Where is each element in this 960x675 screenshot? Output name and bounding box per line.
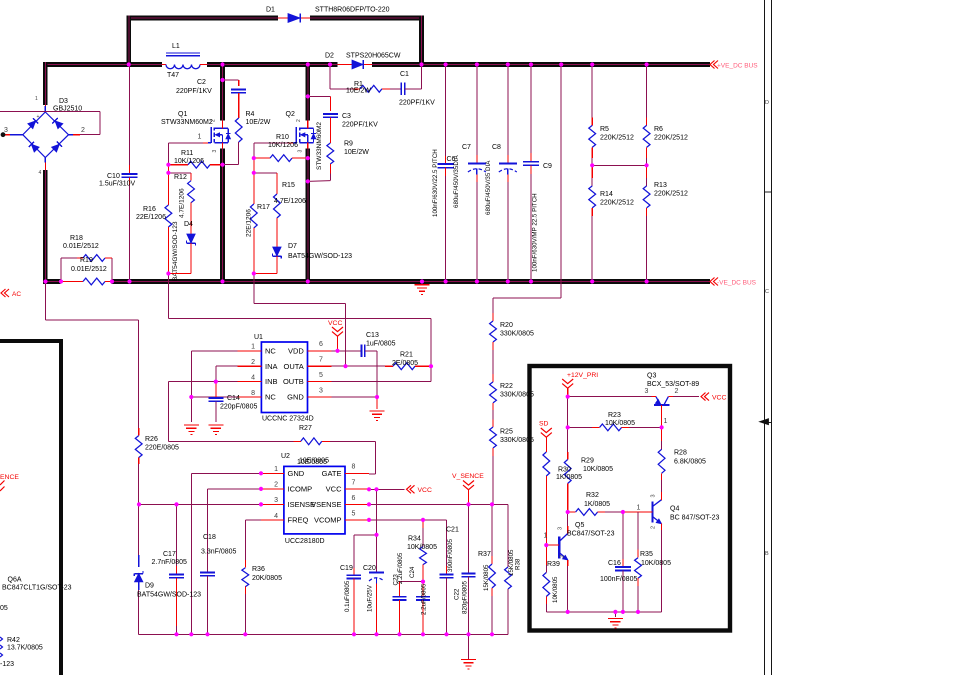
- svg-text:GATE: GATE: [322, 469, 342, 478]
- wire C10 feed: [129, 65, 131, 175]
- ground U2 rail: [461, 634, 476, 669]
- svg-text:R16: R16: [143, 206, 156, 213]
- junction (615.4,611.9): [613, 610, 617, 614]
- wire R5-R6 mid rail: [592, 164, 646, 166]
- junction (646.6,281.5): [645, 279, 649, 283]
- resistor R21: [332, 352, 432, 370]
- resistor R28: [658, 427, 706, 500]
- resistor R35: [635, 512, 671, 612]
- wire U2 ICOMP: [208, 489, 261, 573]
- svg-text:SD: SD: [539, 421, 549, 428]
- svg-text:C1: C1: [400, 71, 409, 78]
- junction (307.8,181.4): [306, 179, 310, 183]
- svg-text:10uF/25V: 10uF/25V: [367, 584, 374, 612]
- svg-text:OUTB: OUTB: [283, 377, 304, 386]
- junction (139,504.4): [137, 502, 141, 506]
- wire D3 negative output bus: [43, 170, 48, 282]
- svg-text:1: 1: [198, 134, 202, 141]
- svg-text:L1: L1: [172, 43, 180, 50]
- net -VE_DC BUS flag: [710, 278, 757, 287]
- svg-text:7: 7: [352, 479, 356, 486]
- junction (476.9,64.5): [475, 62, 479, 66]
- capacitor C8: [485, 65, 517, 282]
- net +VE_DC BUS flag: [710, 61, 758, 70]
- svg-text:R39: R39: [547, 561, 560, 568]
- diode D1: [266, 7, 390, 23]
- wire Q5 emitter to rail: [567, 566, 569, 612]
- junction (377,397): [375, 395, 379, 399]
- svg-text:3: 3: [651, 494, 657, 497]
- svg-text:C16: C16: [608, 560, 621, 567]
- svg-text:6: 6: [352, 495, 356, 502]
- wire R15 tap: [254, 158, 277, 194]
- svg-text:OUTA: OUTA: [284, 362, 304, 371]
- svg-text:BAT54GW/SOD-123: BAT54GW/SOD-123: [137, 592, 201, 599]
- svg-text:GND: GND: [287, 393, 304, 402]
- svg-text:R5: R5: [600, 126, 609, 133]
- resistor R4: [235, 111, 270, 165]
- junction (345.5,366.2): [343, 364, 347, 368]
- svg-text:10E/2W: 10E/2W: [346, 88, 371, 95]
- wire INA to INB: [216, 366, 238, 381]
- svg-text:2: 2: [651, 526, 657, 529]
- junction (423,581.6): [421, 580, 425, 584]
- svg-text:0.01E/2512: 0.01E/2512: [63, 243, 99, 250]
- svg-text:R23: R23: [608, 412, 621, 419]
- wire R1 branch: [330, 65, 360, 89]
- junction (399.5,634.3): [397, 632, 401, 636]
- svg-text:ENCE: ENCE: [0, 474, 19, 481]
- wire Q2 source bus: [305, 149, 310, 282]
- resistor R15: [274, 182, 307, 247]
- resistor R19: [61, 257, 112, 285]
- svg-text:ICOMP: ICOMP: [288, 484, 313, 493]
- junction (176.5,504.4): [174, 502, 178, 506]
- net AC flag: [1, 289, 21, 298]
- junction (253.8,158.1): [252, 156, 256, 160]
- wire U2 GATE to R27: [369, 473, 376, 475]
- svg-text:0.1uF/0805: 0.1uF/0805: [344, 580, 351, 612]
- wire U2 VCC: [369, 488, 405, 490]
- capacitor C9: [523, 65, 552, 282]
- net V_SENCE flag left: [0, 474, 19, 491]
- svg-text:6.8K/0805: 6.8K/0805: [674, 459, 706, 466]
- junction (507.8,281.5): [506, 279, 510, 283]
- svg-text:Q6A: Q6A: [8, 577, 22, 584]
- svg-text:10K/0805: 10K/0805: [583, 466, 613, 473]
- junction (222.5,281.5): [220, 279, 224, 283]
- resistor R16: [136, 173, 172, 274]
- svg-text:Q3: Q3: [647, 373, 656, 380]
- op-amp U1 gate driver: [238, 334, 332, 423]
- svg-text:22E/1206: 22E/1206: [136, 214, 166, 221]
- ground U1 NC: [184, 425, 199, 435]
- svg-text:R36: R36: [252, 566, 265, 573]
- transistor Q1: [161, 111, 231, 153]
- junction (168.4,164.7): [166, 163, 170, 167]
- junction (369,504.4): [367, 502, 371, 506]
- junction (337.5,350.8): [335, 349, 339, 353]
- capacitor C13: [332, 332, 396, 397]
- svg-text:8: 8: [352, 464, 356, 471]
- svg-text:2: 2: [675, 388, 679, 395]
- svg-text:220K/2512: 220K/2512: [654, 191, 688, 198]
- junction (421.5,64.5): [419, 62, 423, 66]
- svg-text:C2: C2: [197, 79, 206, 86]
- svg-text:R17: R17: [257, 204, 270, 211]
- junction (622.9,611.9): [621, 610, 625, 614]
- junction (128.75,64.5): [127, 62, 131, 66]
- junction (376.5,634.3): [374, 632, 378, 636]
- svg-text:FREQ: FREQ: [288, 516, 309, 525]
- svg-text:D: D: [765, 100, 769, 106]
- svg-text:100nF/630V/MP 22.5 PITCH: 100nF/630V/MP 22.5 PITCH: [532, 193, 539, 272]
- junction (638,611.9): [636, 610, 640, 614]
- junction (431,366.2): [429, 364, 433, 368]
- svg-text:D7: D7: [288, 243, 297, 250]
- junction (661.6,427.4): [660, 425, 664, 429]
- capacitor C16: [600, 512, 637, 612]
- svg-text:C: C: [765, 289, 769, 295]
- svg-text:INB: INB: [265, 377, 278, 386]
- resistor R38: [505, 549, 522, 634]
- net SD flag: [539, 421, 552, 453]
- ground C14: [208, 425, 223, 435]
- svg-text:INA: INA: [265, 362, 278, 371]
- svg-text:C24: C24: [409, 566, 416, 578]
- diode D4: [168, 221, 195, 281]
- wire OUTB to R21: [332, 366, 432, 381]
- junction (561.2,64.5): [559, 62, 563, 66]
- resistor R39: [543, 545, 560, 612]
- capacitor C20: [363, 565, 384, 634]
- svg-text:R9: R9: [344, 141, 353, 148]
- svg-text:2.2uF/0805: 2.2uF/0805: [421, 583, 428, 615]
- svg-text:820pF/0805: 820pF/0805: [462, 580, 469, 614]
- svg-text:R35: R35: [640, 551, 653, 558]
- svg-text:4: 4: [39, 170, 42, 176]
- svg-text:BCX_53/SOT-89: BCX_53/SOT-89: [647, 381, 699, 388]
- resistor R26: [135, 436, 179, 505]
- svg-text:VCC: VCC: [328, 320, 342, 327]
- resistor R25: [490, 427, 534, 504]
- capacitor C10: [99, 173, 138, 282]
- junction (468.5,634.3): [466, 632, 470, 636]
- svg-text:UCC28180D: UCC28180D: [285, 538, 325, 545]
- svg-text:1: 1: [35, 96, 38, 102]
- svg-text:STW33NM60M2: STW33NM60M2: [316, 122, 323, 170]
- junction (261,504.4): [259, 502, 263, 506]
- svg-text:C10: C10: [107, 173, 120, 180]
- svg-text:C9: C9: [543, 163, 552, 170]
- capacitor C19: [340, 565, 361, 634]
- svg-text:R27: R27: [299, 425, 312, 432]
- svg-text:C18: C18: [203, 534, 216, 541]
- svg-text:VCOMP: VCOMP: [314, 516, 342, 525]
- junction (253.8,273.5): [252, 271, 256, 275]
- resistor R10: [254, 134, 308, 162]
- transistor Q3: [645, 373, 700, 426]
- resistor R5: [589, 65, 634, 166]
- svg-text:V_SENCE: V_SENCE: [452, 473, 484, 480]
- svg-text:1: 1: [637, 505, 641, 512]
- svg-text:AC: AC: [12, 291, 21, 298]
- svg-text:R34: R34: [408, 536, 421, 543]
- svg-text:R25: R25: [500, 429, 513, 436]
- junction (61,281.5): [59, 279, 63, 283]
- junction (592.2,281.5): [590, 279, 594, 283]
- svg-text:BC847CLT1G/SOT-23: BC847CLT1G/SOT-23: [2, 585, 72, 592]
- capacitor C2: [176, 79, 246, 118]
- svg-text:R12: R12: [174, 174, 187, 181]
- junction (307.8,281.5): [306, 279, 310, 283]
- svg-text:10K/0805: 10K/0805: [407, 544, 437, 551]
- svg-text:STTH8R06DFP/TO-220: STTH8R06DFP/TO-220: [315, 7, 390, 14]
- wire U1 GND: [332, 397, 378, 409]
- svg-text:100nF/630V/22.5 PITCH: 100nF/630V/22.5 PITCH: [432, 149, 439, 217]
- junction (245.3,634.3): [243, 632, 247, 636]
- capacitor C24: [409, 566, 430, 634]
- svg-text:VCC: VCC: [418, 487, 432, 494]
- svg-text:05: 05: [0, 605, 8, 612]
- svg-text:+12V_PRI: +12V_PRI: [567, 372, 598, 379]
- svg-text:1: 1: [544, 533, 548, 540]
- junction (129.5,281.5): [127, 279, 131, 283]
- svg-text:15K/0805: 15K/0805: [508, 549, 515, 576]
- resistor R27: [297, 425, 376, 474]
- svg-text:-VE_DC BUS: -VE_DC BUS: [717, 280, 757, 287]
- wire U2 VSENSE: [369, 504, 508, 567]
- wire Q2 drain bus: [305, 62, 310, 120]
- wire Q5 collector: [567, 512, 569, 526]
- capacitor C17: [152, 504, 188, 634]
- svg-text:2: 2: [251, 359, 255, 366]
- wire D3 positive output bus: [43, 62, 48, 105]
- ground bias box: [608, 612, 623, 628]
- svg-text:3.3nF/0805: 3.3nF/0805: [201, 549, 237, 556]
- svg-text:BC847/SOT-23: BC847/SOT-23: [567, 531, 615, 538]
- junction (567.7,512): [566, 510, 570, 514]
- junction (507.8,64.5): [506, 62, 510, 66]
- svg-text:R14: R14: [600, 191, 613, 198]
- svg-text:2: 2: [81, 127, 85, 134]
- junction (445.6,281.5): [444, 279, 448, 283]
- svg-text:T47: T47: [167, 72, 179, 79]
- junction (646.6,64.5): [645, 62, 649, 66]
- svg-text:220E/0805: 220E/0805: [145, 445, 179, 452]
- net VCC flag at Q3: [673, 393, 726, 402]
- junction (307.8,96.4): [306, 94, 310, 98]
- junction (215.8,381.6): [214, 380, 218, 384]
- resistor R32: [568, 492, 623, 515]
- junction (546.3,545.1): [544, 543, 548, 547]
- svg-text:C20: C20: [363, 565, 376, 572]
- junction (168.4,172.8): [166, 171, 170, 175]
- svg-text:Q5: Q5: [575, 522, 584, 529]
- svg-text:-123: -123: [0, 661, 14, 668]
- svg-text:2: 2: [274, 482, 278, 489]
- capacitor C1: [399, 65, 435, 107]
- junction (646.6,165.3): [645, 163, 649, 167]
- svg-text:VDD: VDD: [288, 346, 304, 355]
- svg-text:330K/0805: 330K/0805: [500, 331, 534, 338]
- transistor Q5: [544, 522, 615, 566]
- svg-text:2E/0805: 2E/0805: [392, 360, 418, 367]
- svg-text:C14: C14: [227, 395, 240, 402]
- svg-text:13.7K/0805: 13.7K/0805: [7, 645, 43, 652]
- wire U2 ISENSE: [139, 503, 261, 505]
- junction (423,634.3): [421, 632, 425, 636]
- resistor R1: [346, 81, 401, 95]
- wire Q4 collector: [660, 480, 662, 492]
- svg-text:10K/0805: 10K/0805: [605, 420, 635, 427]
- capacitor C3: [323, 113, 378, 143]
- svg-text:4.7E/1206: 4.7E/1206: [274, 198, 306, 205]
- svg-text:10E/2W: 10E/2W: [246, 119, 271, 126]
- svg-text:C13: C13: [366, 332, 379, 339]
- svg-text:R10: R10: [276, 134, 289, 141]
- inductor L1: [162, 43, 207, 79]
- wire INB: [168, 382, 237, 442]
- resistor R36: [242, 566, 282, 634]
- junction (207.5,634.3): [205, 632, 209, 636]
- junction (330,64.5): [328, 62, 332, 66]
- svg-text:C3: C3: [342, 113, 351, 120]
- wire Q2 gate: [254, 143, 288, 158]
- svg-text:R37: R37: [478, 551, 491, 558]
- svg-text:1uF/0805: 1uF/0805: [366, 341, 396, 348]
- svg-text:1.5uF/310V: 1.5uF/310V: [99, 181, 136, 188]
- svg-text:R19: R19: [80, 257, 93, 264]
- capacitor C23: [392, 552, 423, 634]
- svg-text:220PF/1KV: 220PF/1KV: [176, 88, 212, 95]
- junction (422,281.5): [420, 279, 424, 283]
- junction (222.5,164.7): [220, 163, 224, 167]
- junction (567.7,611.9): [566, 610, 570, 614]
- svg-text:D3: D3: [59, 98, 68, 105]
- wire Q1 gate-net to R21: [168, 274, 431, 367]
- svg-text:D4: D4: [184, 221, 193, 228]
- svg-text:20K/0805: 20K/0805: [252, 575, 282, 582]
- wire voltage divider feed: [493, 65, 561, 322]
- svg-text:1: 1: [274, 466, 278, 473]
- ground bus2: [415, 285, 430, 295]
- resistor R42: [0, 605, 43, 668]
- svg-text:B: B: [765, 551, 769, 557]
- junction (445.6,64.5): [444, 62, 448, 66]
- svg-text:STW33NM60M2: STW33NM60M2: [161, 119, 213, 126]
- junction (423,519.9): [421, 518, 425, 522]
- svg-text:1K/0805: 1K/0805: [584, 501, 610, 508]
- ground U1 GND: [370, 411, 385, 421]
- svg-text:+VE_DC BUS: +VE_DC BUS: [717, 63, 758, 70]
- junction (168.4,273.5): [166, 271, 170, 275]
- svg-text:2: 2: [560, 555, 566, 558]
- svg-text:NC: NC: [265, 393, 276, 402]
- junction (369,489.3): [367, 487, 371, 491]
- svg-text:VSENSE: VSENSE: [311, 500, 341, 509]
- op-amp U2 PFC controller: [261, 453, 369, 545]
- junction (531,281.5): [529, 279, 533, 283]
- svg-text:R18: R18: [70, 235, 83, 242]
- wire U2 FREQ to R36: [245, 520, 261, 568]
- svg-text:R20: R20: [500, 322, 513, 329]
- svg-text:R4: R4: [246, 111, 255, 118]
- junction (222.5,64.5): [220, 62, 224, 66]
- wire D1 top loop bus: [129, 16, 422, 65]
- svg-text:R6: R6: [654, 126, 663, 133]
- wire bias box rail: [546, 611, 661, 613]
- wire U2 VCOMP: [369, 520, 447, 566]
- svg-text:R32: R32: [586, 492, 599, 499]
- svg-text:BAT54GW/SOD-123: BAT54GW/SOD-123: [172, 221, 179, 281]
- svg-text:2.7nF/0805: 2.7nF/0805: [152, 559, 188, 566]
- svg-text:220pF/0805: 220pF/0805: [220, 404, 257, 411]
- svg-text:VCC: VCC: [712, 395, 726, 402]
- junction (592.2,64.5): [590, 62, 594, 66]
- junction (531,64.5): [529, 62, 533, 66]
- wire +VE_DC bus top rail: [46, 62, 710, 67]
- junction (253.8,172.8): [252, 171, 256, 175]
- svg-text:3: 3: [558, 527, 564, 530]
- svg-text:VCC: VCC: [326, 484, 342, 493]
- junction (222.5,80): [220, 78, 224, 82]
- bridge rectifier D3: [1, 96, 85, 176]
- svg-text:D2: D2: [325, 53, 334, 60]
- svg-text:4: 4: [251, 374, 255, 381]
- svg-text:BC 847/SOT-23: BC 847/SOT-23: [670, 515, 720, 522]
- svg-text:R22: R22: [500, 383, 513, 390]
- transistor Q2: [286, 111, 324, 170]
- resistor R29: [564, 427, 613, 512]
- wire AC sense to R26: [46, 282, 139, 436]
- svg-text:1: 1: [664, 418, 668, 425]
- junction (307.8,158.1): [306, 156, 310, 160]
- wire U1 NC pins to ground: [191, 351, 237, 422]
- junction (567.7,427.4): [566, 425, 570, 429]
- svg-text:6: 6: [319, 341, 323, 348]
- resistor R30: [543, 452, 582, 545]
- svg-text:680uF/450V/35 DIA: 680uF/450V/35 DIA: [485, 160, 492, 215]
- resistor R13: [643, 165, 688, 281]
- svg-text:0.01E/2512: 0.01E/2512: [71, 266, 107, 273]
- wire Q1 source bus: [220, 149, 225, 282]
- svg-text:3: 3: [212, 150, 218, 153]
- svg-text:100nF/0805: 100nF/0805: [600, 576, 637, 583]
- capacitor C7: [453, 65, 486, 282]
- wire Q2 gate-net to OUTA: [254, 274, 346, 367]
- svg-text:GND: GND: [288, 469, 305, 478]
- svg-text:C17: C17: [163, 551, 176, 558]
- net V_SENCE flag: [452, 473, 484, 504]
- junction (492,504.4): [490, 502, 494, 506]
- junction (354,634.3): [352, 632, 356, 636]
- junction (376.5,534.8): [374, 533, 378, 537]
- svg-text:D1: D1: [266, 7, 275, 14]
- svg-text:Q2: Q2: [286, 111, 295, 118]
- resistor R34: [407, 520, 437, 582]
- resistor R23: [568, 412, 662, 431]
- svg-text:C7: C7: [462, 144, 471, 151]
- svg-text:R11: R11: [181, 150, 193, 157]
- svg-text:R38: R38: [515, 558, 522, 570]
- svg-text:8: 8: [251, 390, 255, 397]
- svg-text:UCCNC 27324D: UCCNC 27324D: [262, 416, 314, 423]
- junction (492,634.3): [490, 632, 494, 636]
- svg-text:10K/1206: 10K/1206: [174, 158, 204, 165]
- svg-text:220PF/1KV: 220PF/1KV: [399, 100, 435, 107]
- svg-text:C19: C19: [340, 565, 353, 572]
